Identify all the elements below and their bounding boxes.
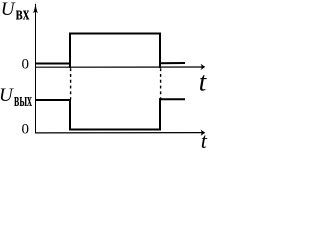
time axis (bottom plot) [35, 132, 203, 134]
svg-text:0: 0 [22, 122, 30, 138]
time axis arrowhead (bottom) [201, 130, 206, 136]
svg-text:U: U [0, 85, 14, 106]
output waveform: high level left segment [35, 99, 71, 101]
output waveform: rising edge [159, 98, 161, 130]
input waveform: zero level right segment [159, 62, 185, 64]
output waveform: falling edge [69, 99, 71, 130]
svg-text:вх: вх [16, 3, 30, 24]
vertical axis arrowhead [33, 2, 38, 13]
svg-text:вых: вых [14, 89, 32, 110]
svg-text:t: t [201, 128, 208, 153]
svg-text:U: U [1, 0, 16, 20]
time axis arrowhead (top) [201, 64, 206, 70]
svg-text:0: 0 [22, 57, 30, 73]
input waveform: zero level left segment [35, 63, 71, 65]
input waveform: falling edge [159, 33, 161, 69]
output waveform: high level right segment [159, 98, 185, 100]
input waveform: rising edge [69, 33, 71, 69]
dashed timing line at t1 [70, 68, 72, 99]
time axis (top plot) [35, 66, 203, 68]
output waveform: low level [69, 129, 161, 131]
vertical U axis (shared by both plots) [35, 4, 37, 133]
input waveform: pulse top [69, 33, 161, 35]
dashed timing line at t2 [160, 68, 162, 99]
